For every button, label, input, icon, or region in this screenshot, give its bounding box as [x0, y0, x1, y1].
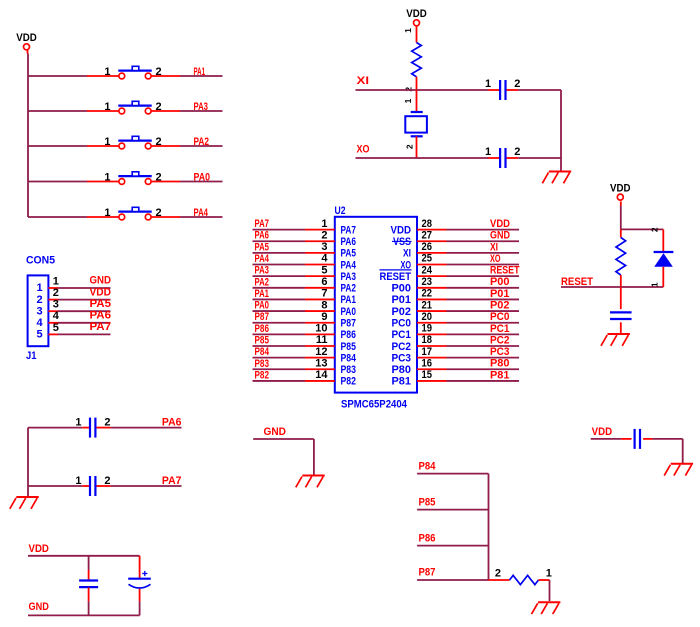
svg-text:PA3: PA3	[255, 265, 270, 277]
svg-text:1: 1	[485, 146, 491, 158]
svg-text:1: 1	[104, 101, 110, 113]
svg-text:PC3: PC3	[392, 352, 412, 364]
svg-text:PA4: PA4	[194, 207, 209, 219]
svg-text:PA3: PA3	[341, 271, 357, 283]
svg-text:PA4: PA4	[255, 253, 270, 265]
svg-text:7: 7	[321, 288, 327, 300]
svg-text:VDD: VDD	[592, 426, 613, 438]
svg-text:J1: J1	[26, 350, 37, 362]
svg-text:22: 22	[422, 288, 433, 300]
svg-text:2: 2	[156, 101, 162, 113]
svg-text:U2: U2	[335, 205, 346, 217]
svg-text:PA0: PA0	[194, 171, 211, 183]
svg-text:25: 25	[422, 253, 433, 265]
svg-text:GND: GND	[264, 426, 287, 438]
svg-text:PA7: PA7	[341, 224, 357, 236]
svg-text:P87: P87	[341, 318, 357, 330]
svg-text:P83: P83	[341, 364, 357, 376]
svg-text:2: 2	[514, 78, 520, 90]
svg-text:PA5: PA5	[255, 241, 270, 253]
svg-text:P84: P84	[341, 352, 357, 364]
svg-text:P87: P87	[255, 311, 270, 323]
svg-text:2: 2	[514, 146, 520, 158]
svg-text:23: 23	[422, 276, 433, 288]
svg-text:GND: GND	[29, 601, 49, 613]
svg-text:8: 8	[321, 299, 327, 311]
svg-text:PA2: PA2	[194, 136, 210, 148]
svg-text:P02: P02	[392, 306, 412, 318]
svg-text:1: 1	[36, 282, 42, 294]
svg-text:P82: P82	[341, 376, 357, 388]
svg-text:4: 4	[321, 253, 328, 265]
svg-text:GND: GND	[490, 230, 510, 242]
svg-text:PC3: PC3	[490, 346, 510, 358]
svg-text:10: 10	[315, 323, 327, 335]
svg-text:PA7: PA7	[90, 321, 112, 333]
svg-text:1: 1	[75, 416, 81, 428]
svg-text:P86: P86	[419, 532, 436, 544]
svg-text:2: 2	[404, 144, 414, 149]
svg-text:1: 1	[403, 28, 413, 33]
svg-text:PA7: PA7	[162, 475, 182, 487]
svg-text:PA1: PA1	[255, 288, 270, 300]
svg-text:21: 21	[422, 299, 433, 311]
svg-text:2: 2	[495, 567, 501, 579]
svg-text:PA0: PA0	[255, 300, 270, 312]
svg-text:5: 5	[53, 322, 59, 334]
svg-text:P01: P01	[392, 294, 412, 306]
svg-text:P84: P84	[255, 346, 270, 358]
svg-text:XI: XI	[357, 75, 370, 87]
svg-text:P80: P80	[490, 358, 510, 370]
svg-text:PC0: PC0	[490, 311, 510, 323]
svg-text:1: 1	[104, 207, 110, 219]
svg-text:PC2: PC2	[392, 341, 412, 353]
svg-text:PA4: PA4	[341, 259, 357, 271]
svg-text:GND: GND	[90, 275, 112, 287]
svg-text:VDD: VDD	[90, 286, 112, 298]
svg-text:XI: XI	[403, 248, 411, 260]
svg-text:1: 1	[75, 475, 81, 487]
svg-text:2: 2	[156, 172, 162, 184]
svg-text:17: 17	[422, 346, 433, 358]
svg-text:P85: P85	[419, 496, 436, 508]
svg-text:2: 2	[321, 229, 327, 241]
svg-text:1: 1	[104, 172, 110, 184]
svg-text:14: 14	[315, 369, 328, 381]
svg-text:15: 15	[422, 369, 433, 381]
svg-text:CON5: CON5	[26, 255, 55, 267]
svg-text:PA1: PA1	[194, 66, 206, 78]
svg-text:PA5: PA5	[341, 248, 357, 260]
svg-text:PC2: PC2	[490, 334, 510, 346]
svg-text:11: 11	[316, 334, 328, 346]
svg-text:3: 3	[36, 305, 42, 317]
svg-text:18: 18	[422, 334, 433, 346]
svg-text:5: 5	[36, 329, 42, 341]
svg-text:13: 13	[315, 357, 327, 369]
svg-text:PA7: PA7	[255, 218, 270, 230]
svg-text:1: 1	[104, 136, 110, 148]
svg-text:PA6: PA6	[341, 236, 357, 248]
svg-text:VDD: VDD	[16, 32, 37, 44]
svg-text:P82: P82	[255, 369, 270, 381]
svg-text:PA0: PA0	[341, 306, 357, 318]
svg-text:PA2: PA2	[341, 283, 357, 295]
svg-text:RESET: RESET	[380, 271, 412, 283]
svg-text:2: 2	[53, 287, 59, 299]
svg-text:6: 6	[321, 276, 327, 288]
svg-text:PA2: PA2	[255, 276, 270, 288]
svg-text:1: 1	[485, 78, 491, 90]
svg-text:RESET: RESET	[490, 265, 520, 277]
svg-text:1: 1	[650, 282, 660, 287]
svg-text:12: 12	[315, 346, 327, 358]
svg-text:PC0: PC0	[392, 318, 412, 330]
svg-text:4: 4	[36, 317, 43, 329]
svg-text:P85: P85	[341, 341, 357, 353]
svg-text:1: 1	[546, 567, 552, 579]
svg-text:2: 2	[156, 66, 162, 78]
svg-text:P80: P80	[392, 364, 412, 376]
svg-text:27: 27	[422, 229, 433, 241]
svg-text:PA6: PA6	[90, 310, 112, 322]
svg-text:3: 3	[53, 299, 59, 311]
svg-text:SPMC65P2404: SPMC65P2404	[341, 398, 408, 410]
svg-text:P81: P81	[490, 369, 510, 381]
svg-text:2: 2	[104, 475, 110, 487]
svg-text:5: 5	[321, 264, 327, 276]
svg-text:PA5: PA5	[90, 298, 112, 310]
svg-text:P02: P02	[490, 299, 510, 311]
svg-text:26: 26	[422, 241, 433, 253]
svg-text:P86: P86	[341, 329, 357, 341]
svg-text:19: 19	[422, 323, 433, 335]
svg-text:PA6: PA6	[255, 230, 270, 242]
svg-text:2: 2	[156, 136, 162, 148]
svg-text:PA6: PA6	[162, 417, 182, 429]
svg-text:4: 4	[53, 310, 60, 322]
svg-text:2: 2	[36, 294, 42, 306]
svg-text:1: 1	[321, 218, 327, 230]
svg-text:1: 1	[403, 98, 413, 103]
svg-text:PC1: PC1	[490, 323, 510, 335]
svg-text:XO: XO	[357, 144, 370, 156]
svg-text:16: 16	[422, 357, 433, 369]
svg-text:P87: P87	[419, 567, 436, 579]
svg-text:PA3: PA3	[194, 101, 209, 113]
svg-text:2: 2	[156, 207, 162, 219]
svg-text:2: 2	[650, 227, 660, 232]
svg-text:P85: P85	[255, 335, 270, 347]
svg-text:P00: P00	[490, 276, 510, 288]
svg-text:XO: XO	[490, 253, 501, 265]
svg-text:P84: P84	[419, 460, 437, 472]
svg-text:P81: P81	[392, 376, 412, 388]
svg-text:P00: P00	[392, 283, 412, 295]
svg-text:VDD: VDD	[391, 224, 412, 236]
svg-text:1: 1	[53, 275, 59, 287]
svg-text:20: 20	[422, 311, 433, 323]
svg-text:XI: XI	[490, 241, 498, 253]
svg-text:3: 3	[321, 241, 327, 253]
svg-text:VDD: VDD	[610, 183, 631, 195]
svg-text:VDD: VDD	[406, 8, 427, 20]
svg-text:28: 28	[422, 218, 433, 230]
svg-text:9: 9	[321, 311, 327, 323]
svg-text:P83: P83	[255, 358, 270, 370]
svg-text:PC1: PC1	[392, 329, 412, 341]
svg-text:P86: P86	[255, 323, 270, 335]
svg-text:2: 2	[104, 416, 110, 428]
svg-text:PA1: PA1	[341, 294, 357, 306]
svg-text:P01: P01	[490, 288, 510, 300]
svg-text:1: 1	[104, 66, 110, 78]
svg-text:24: 24	[422, 264, 433, 276]
svg-text:VDD: VDD	[490, 218, 510, 230]
svg-text:VDD: VDD	[29, 543, 49, 555]
